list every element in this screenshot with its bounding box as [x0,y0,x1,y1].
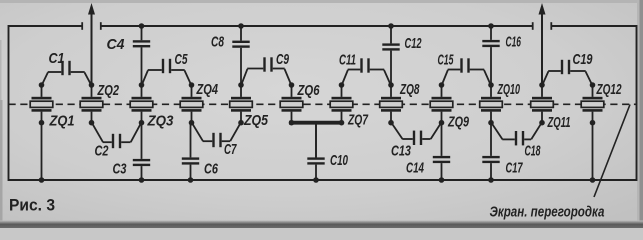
svg-text:ZQ8: ZQ8 [399,81,420,98]
crystal ZQ8 [380,85,403,123]
capacitor C8 (ZQ5 top to case) [232,26,249,85]
svg-text:ZQ4: ZQ4 [196,81,219,98]
junction: C3 to bottom case wall [139,177,145,183]
capacitor C2 (bridging ZQ2/ZQ3 bottoms) [92,122,142,148]
svg-text:C9: C9 [276,51,289,68]
svg-text:C8: C8 [211,34,224,51]
svg-text:Экран. перегородка: Экран. перегородка [490,205,605,221]
crystal ZQ11 [531,85,554,123]
capacitor C17 (shunt to case bottom) [482,123,499,180]
svg-text:C1: C1 [49,50,65,67]
crystal ZQ1 [30,85,53,123]
svg-text:C14: C14 [406,160,424,177]
capacitor C15 (bridging ZQ9/ZQ10 tops) [442,58,492,85]
callout line to shield partition [594,105,630,198]
capacitor C9 (bridging ZQ5/ZQ6 tops) [241,57,292,85]
shield wall feedthrough ticks (output) [533,22,552,30]
capacitor C10 (shunt to case bottom) [307,123,324,180]
svg-text:ZQ9: ZQ9 [447,114,469,131]
junction: C8 to top case wall [238,23,244,29]
crystal ZQ9 [430,85,453,123]
output lead arrow [539,3,546,85]
svg-text:C3: C3 [113,161,127,178]
crystal ZQ12 [581,85,604,123]
capacitor C16 (ZQ10 top to case) [482,26,499,85]
input lead arrow [88,3,95,85]
svg-text:ZQ10: ZQ10 [497,81,520,98]
capacitor C5 (bridging ZQ3/ZQ4 tops) [142,59,192,86]
crystal ZQ7 [330,85,353,123]
capacitor C18 (bridging ZQ10/ZQ11 bottoms) [491,122,542,145]
svg-text:C7: C7 [224,141,237,158]
svg-text:C12: C12 [405,35,422,52]
capacitor C6 (shunt to case bottom) [182,123,199,180]
junction: C16 to top case wall [488,23,494,29]
svg-text:ZQ12: ZQ12 [596,81,622,98]
capacitor C19 (bridging ZQ11/ZQ12 tops) [542,60,593,86]
svg-text:Рис. 3: Рис. 3 [9,197,55,215]
svg-text:C6: C6 [204,161,218,178]
capacitor C3 (shunt to case bottom) [133,123,150,180]
junction: C6 to bottom case wall [188,177,194,183]
svg-text:C15: C15 [438,52,454,69]
wire: ZQ12 bottom to case bottom [592,123,594,180]
svg-text:ZQ6: ZQ6 [297,82,320,99]
svg-text:C18: C18 [525,143,541,160]
junction dots: crystal bottom nodes [39,120,596,126]
svg-text:C16: C16 [506,34,522,51]
svg-text:C13: C13 [391,143,411,160]
svg-text:ZQ5: ZQ5 [243,112,268,129]
junction: C4 to top case wall [139,23,145,29]
svg-text:C4: C4 [107,36,126,53]
junction dots: crystal top nodes [39,82,596,88]
wire: C10 stem from bus [315,123,317,158]
junction: C14 to bottom case wall [439,177,445,183]
capacitor C4 (ZQ3 top to case) [133,26,150,85]
svg-text:ZQ2: ZQ2 [97,82,120,99]
junction: C10 to bottom case wall [313,177,319,183]
capacitor C1 (bridging ZQ1/ZQ2 tops) [42,61,92,86]
svg-text:C5: C5 [175,51,188,68]
svg-text:ZQ1: ZQ1 [49,113,75,130]
shield enclosure (grounded filter case) [9,25,637,181]
junction: C17 to bottom case wall [488,177,494,183]
junction: ZQ1 wire to bottom wall [39,177,45,183]
junction: C12 to top case wall [388,23,394,29]
capacitor C7 (bridging ZQ4/ZQ5 bottoms) [192,122,242,147]
shield wall feedthrough ticks (input) [82,22,101,30]
shield partition (dashed centre line) [9,103,637,105]
crystal ZQ6 [280,85,303,123]
svg-text:C19: C19 [573,51,593,68]
wire: thick bus ZQ6 bottom to ZQ7 bottom [289,121,344,125]
svg-text:C10: C10 [330,152,348,169]
wire: ZQ1 bottom to case bottom [41,123,43,180]
capacitor C12 (ZQ8 top to case) [382,26,399,85]
junction: ZQ12 wire to bottom wall [590,177,596,183]
crystal ZQ10 [480,85,503,123]
crystal ZQ5 [230,85,253,123]
svg-text:C11: C11 [339,52,356,69]
svg-text:ZQ3: ZQ3 [147,113,174,130]
crystal ZQ2 [80,85,103,123]
crystal ZQ4 [180,85,203,123]
svg-text:ZQ11: ZQ11 [547,114,571,131]
svg-text:C2: C2 [95,143,109,160]
crystal ZQ3 [130,85,153,123]
capacitor C11 (bridging ZQ7/ZQ8 tops) [342,58,392,85]
capacitor C13 (bridging ZQ8/ZQ9 bottoms) [391,122,442,145]
svg-text:ZQ7: ZQ7 [347,112,368,129]
svg-text:C17: C17 [506,160,523,177]
capacitor C14 (shunt to case bottom) [433,123,450,180]
